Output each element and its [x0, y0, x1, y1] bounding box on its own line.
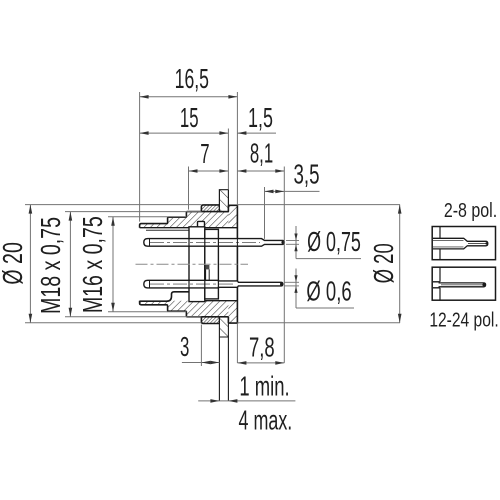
left extension lines — [25, 204, 201, 206]
insulator cap — [198, 221, 205, 226]
svg-text:Ø 0,6: Ø 0,6 — [306, 277, 351, 308]
cavity top line — [140, 227, 238, 229]
label O0,75 — [295, 226, 297, 259]
svg-text:Ø 0,75: Ø 0,75 — [307, 226, 361, 257]
svg-text:7,8: 7,8 — [249, 333, 275, 364]
svg-text:2-8 pol.: 2-8 pol. — [444, 199, 497, 221]
dim M16 — [112, 217, 114, 312]
dim 3,5 — [265, 190, 320, 192]
bottom extension lines — [200, 325, 202, 367]
column edge lines crossing pins — [188, 238, 190, 246]
svg-text:16,5: 16,5 — [175, 63, 209, 94]
dim 16,5 — [140, 96, 238, 98]
svg-text:3,5: 3,5 — [293, 159, 319, 191]
gasket outline top — [201, 205, 219, 212]
detail box 2-8 pol. — [432, 227, 495, 260]
flange hatch bottom — [228, 301, 237, 323]
gasket hatch bottom — [201, 317, 219, 324]
insulator face edge top — [146, 229, 189, 231]
dim M18 — [69, 212, 71, 317]
insulator column 1 — [189, 227, 205, 302]
svg-text:Ø 20: Ø 20 — [0, 242, 29, 284]
svg-text:Ø 20: Ø 20 — [369, 243, 400, 283]
pin 12-24 — [433, 282, 486, 288]
svg-text:15: 15 — [180, 102, 199, 134]
svg-text:1,5: 1,5 — [248, 102, 273, 133]
svg-text:M16 x 0,75: M16 x 0,75 — [78, 216, 109, 313]
gasket hatch top — [201, 205, 219, 212]
svg-text:8,1: 8,1 — [250, 137, 273, 169]
lower contact pin — [144, 280, 283, 288]
dim O20 right — [399, 205, 401, 323]
dim O20 left — [29, 205, 31, 323]
dim 15 — [140, 132, 229, 134]
svg-text:12-24 pol.: 12-24 pol. — [429, 309, 498, 331]
gasket-panel interface — [218, 205, 220, 212]
centerline — [136, 263, 249, 265]
svg-text:4 max.: 4 max. — [239, 405, 293, 436]
body outer profile top — [140, 212, 220, 228]
detail box 12-24 pol. — [432, 267, 495, 300]
cavity bottom line and shelf — [140, 292, 189, 301]
pin 2-8 — [433, 238, 488, 249]
extension lines top — [139, 92, 141, 222]
coding key square — [205, 265, 209, 269]
insulator column 2 — [205, 229, 219, 299]
dim 3 — [182, 362, 220, 364]
svg-text:M18 x 0,75: M18 x 0,75 — [36, 217, 67, 314]
mounting panel top (hatched) — [219, 190, 228, 212]
svg-text:1 min.: 1 min. — [239, 372, 289, 403]
mounting panel bottom (hatched) — [219, 317, 228, 337]
svg-text:7: 7 — [200, 138, 209, 170]
dim 1 min / 4 max — [198, 400, 295, 402]
body wall hatch bottom — [140, 301, 229, 317]
label O0,6 — [295, 269, 297, 309]
dim 8,1 — [237, 170, 284, 172]
dim 7 — [189, 170, 229, 172]
svg-text:3: 3 — [180, 331, 189, 363]
flange hatch top — [228, 205, 237, 227]
flange outline — [228, 205, 237, 323]
body outer profile bottom — [140, 301, 220, 317]
dim 7,8 — [237, 362, 284, 364]
M18 line under panel — [219, 211, 228, 213]
upper contact pin — [144, 239, 284, 247]
dim 1,5 — [237, 132, 276, 134]
gasket outline bottom — [201, 317, 219, 324]
body wall hatch top — [140, 212, 229, 228]
